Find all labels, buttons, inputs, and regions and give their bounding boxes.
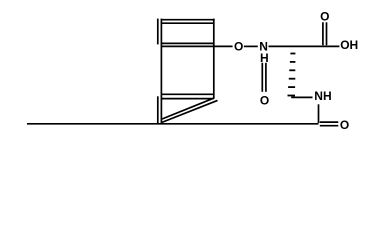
wire bond CH2 to NH [291,96,312,98]
wire C=O top double bond vertical right [326,22,328,45]
wire ring lower lower horizontal (double bond companion) [162,98,214,100]
svg-text:NH: NH [314,89,331,103]
svg-text:O: O [260,93,269,107]
wire ring middle lower horizontal continuing to O [161,45,232,47]
svg-text:OH: OH [340,38,358,52]
wire ring left inner vertical (full height) [160,19,162,124]
wire amide C=O double bond upper [320,121,339,123]
svg-text:O: O [234,39,243,53]
svg-text:O: O [320,10,329,24]
wire ring left outer vertical top (double bond companion) [157,19,159,45]
wire ring top outer horizontal [161,19,215,21]
wire ring lower upper horizontal [162,93,214,95]
hashed wedge bond [288,54,296,96]
wire bond NH down to amide carbon [318,104,320,123]
svg-text:H: H [260,51,269,65]
wire N=O double bond vertical right [265,63,267,92]
wire ring left outer vertical bottom (double bond companion) [157,96,159,124]
wire bond N to carboxyl across alpha carbon [269,45,340,47]
svg-text:O: O [340,118,349,132]
wire N=O double bond vertical left [261,63,263,92]
wire C=O top double bond vertical left [322,22,324,45]
wire ring diagonal lower [162,100,218,122]
wire ring top inner horizontal (double bond companion) [162,22,214,24]
wire bond O to N [244,45,258,47]
wire ring diagonal upper [162,98,214,119]
wire ring right vertical [213,19,215,99]
wire ring middle upper horizontal (double bond companion) [161,42,214,44]
wire amide C=O double bond lower [320,125,339,127]
wire long baseline chain [27,123,319,125]
